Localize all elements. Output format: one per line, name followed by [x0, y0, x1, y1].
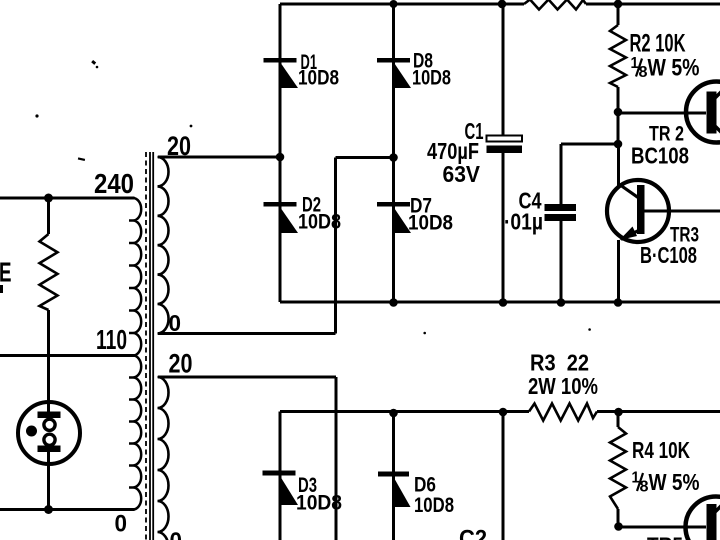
junction dot D1-D2 AC node — [276, 153, 285, 162]
diode D1 — [264, 58, 299, 88]
transistor TR3 — [607, 180, 669, 242]
wire: TR3 emitter lead — [617, 240, 620, 302]
junction dot lower rail R4 — [614, 408, 623, 417]
neon lamp indicator — [18, 402, 80, 464]
wire: lower 20V tap to lower rectifier — [158, 377, 336, 540]
svg-text:240: 240 — [94, 168, 134, 199]
diode D6 — [378, 472, 411, 508]
diode D3 — [263, 471, 299, 506]
junction dot C4 TR3 collector — [614, 140, 623, 149]
svg-text:B·C108: B·C108 — [640, 242, 697, 268]
wire: D3 leg — [279, 412, 282, 540]
wire: R4 leads — [617, 412, 620, 527]
resistor R3 body — [529, 404, 597, 421]
wire: dropper resistor leads / neon leads — [47, 198, 50, 510]
junction dot bottom rail C4 — [557, 298, 566, 307]
diode D8 — [377, 58, 411, 88]
value label R2 1/8W 5% — [631, 55, 700, 82]
wire: TR5 base wire — [619, 526, 707, 529]
junction dot top rail R2 — [614, 0, 623, 8]
junction dot lower rail D6 — [389, 409, 398, 418]
diode D2 — [264, 202, 299, 233]
svg-text:63V: 63V — [443, 161, 481, 187]
wire: mains 0V line — [0, 508, 135, 511]
wire: C2 lead — [502, 412, 505, 540]
value label R4 1/8W 5% — [632, 469, 700, 496]
svg-text:BC108: BC108 — [631, 143, 689, 169]
svg-text:20: 20 — [169, 349, 193, 379]
junction dot 240V line — [44, 194, 53, 203]
junction dot 0V line — [44, 505, 53, 514]
svg-text:10D8: 10D8 — [296, 492, 342, 515]
transformer T1 upper secondary winding — [158, 157, 169, 334]
transformer core laminations — [145, 152, 147, 540]
svg-text:0: 0 — [115, 511, 128, 538]
resistor R1 (label cut off above) — [524, 0, 586, 10]
svg-text:10D8: 10D8 — [412, 67, 451, 90]
svg-text:0: 0 — [170, 528, 183, 540]
wire: D6 leg — [392, 413, 395, 540]
wire: TR2 base wire — [618, 112, 706, 115]
wire: top positive rail — [280, 3, 720, 6]
junction dot D8-D7 AC node — [389, 153, 398, 162]
svg-text:·01µ: ·01µ — [504, 209, 543, 235]
svg-text:R2 10K: R2 10K — [630, 30, 686, 58]
junction dot top rail D8 — [390, 0, 398, 8]
svg-text:W 5%: W 5% — [649, 469, 700, 495]
wire: D1/D2 rectifier leg — [279, 4, 282, 302]
svg-text:TR5: TR5 — [647, 534, 683, 540]
svg-text:C2: C2 — [459, 526, 487, 540]
mains label mark below E — [0, 285, 3, 293]
svg-text:R3 22: R3 22 — [530, 350, 589, 376]
wire: lower rail right of R3 — [597, 410, 720, 413]
wire: R2 leads and TR3 collector lead — [617, 4, 621, 186]
svg-text:10D8: 10D8 — [298, 211, 341, 234]
wire: C1 leads — [502, 4, 505, 302]
junction dot lower rail C2 — [499, 408, 508, 417]
wire: upper 0V tap to D8-D7 junction — [158, 158, 394, 334]
junction dot bottom rail D7 — [389, 298, 398, 307]
svg-text:8: 8 — [639, 64, 648, 81]
resistor R4 body — [610, 427, 626, 509]
resistor dropper body — [40, 234, 58, 310]
junction dot bottom rail C1 — [499, 298, 508, 307]
capacitor C1 — [487, 136, 523, 154]
capacitor C4 — [545, 204, 577, 221]
junction dot bottom rail TR3 emitter — [614, 298, 623, 307]
transformer primary cusp ticks — [129, 221, 133, 488]
svg-text:R4 10K: R4 10K — [632, 437, 690, 463]
svg-text:W 5%: W 5% — [648, 55, 700, 82]
diode D7 — [377, 202, 411, 233]
svg-text:10D8: 10D8 — [408, 212, 453, 235]
scan speckle marks — [35, 60, 590, 334]
svg-text:20: 20 — [167, 131, 191, 161]
svg-text:10D8: 10D8 — [414, 494, 454, 517]
transformer T1 lower secondary winding — [158, 377, 169, 540]
transistor TR5 — [686, 497, 720, 540]
junction dot top rail C1 — [498, 0, 507, 8]
wire: lower rail left of R3 — [280, 410, 529, 413]
svg-text:E: E — [0, 257, 12, 288]
svg-text:0: 0 — [169, 310, 182, 336]
wire: C4 top to node, C4 bottom lead — [561, 144, 618, 302]
junction dot R2 bottom TR2 base — [614, 108, 623, 117]
wire: mains 110V line — [0, 354, 135, 357]
svg-text:110: 110 — [96, 324, 127, 355]
svg-text:2W 10%: 2W 10% — [528, 373, 598, 399]
wire: bottom common rail — [280, 301, 720, 304]
wire: D8/D7 rectifier leg — [392, 4, 395, 303]
junction dot R4 bottom TR5 base — [614, 522, 623, 531]
svg-text:8: 8 — [640, 479, 649, 496]
wire: TR3 base wire — [645, 210, 720, 213]
resistor R2 body — [610, 25, 626, 87]
transistor TR2 — [686, 82, 720, 143]
wire: upper 20V tap to D1-D2 junction — [158, 156, 280, 159]
transformer T1 primary winding — [133, 198, 141, 510]
svg-text:10D8: 10D8 — [298, 67, 339, 90]
wire: mains 240V line — [0, 197, 135, 200]
